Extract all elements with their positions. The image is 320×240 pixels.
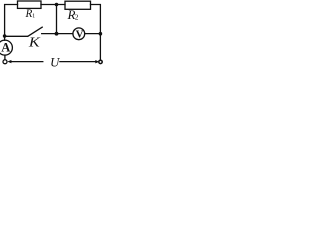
svg-text:K: K xyxy=(28,36,41,51)
svg-text:U: U xyxy=(50,56,60,70)
svg-text:2: 2 xyxy=(75,12,79,21)
svg-text:A: A xyxy=(1,41,10,55)
svg-text:1: 1 xyxy=(32,13,35,20)
svg-text:V: V xyxy=(76,29,84,41)
